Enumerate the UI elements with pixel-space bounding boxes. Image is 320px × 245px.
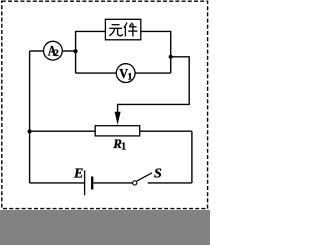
wire element box to right corner down bbox=[141, 31, 171, 73]
ammeter A2 bbox=[44, 41, 63, 60]
battery E short plate bbox=[91, 177, 93, 190]
wire node A up branch to element box bbox=[76, 31, 106, 73]
wire ammeter left lead bbox=[30, 50, 44, 52]
hanzi 元 bbox=[109, 25, 122, 36]
wire rheostat left lead bbox=[30, 130, 96, 132]
wire switch to right corner bbox=[148, 182, 192, 184]
svg-text:S: S bbox=[154, 166, 162, 181]
rheostat R1 body bbox=[95, 126, 140, 136]
node B junction dot bbox=[169, 55, 173, 59]
svg-text:E: E bbox=[73, 166, 83, 181]
hanzi 件 bbox=[124, 22, 138, 36]
svg-text:2: 2 bbox=[54, 49, 59, 59]
switch S lever bbox=[137, 173, 152, 181]
node C junction dot (rheostat left lead) bbox=[28, 129, 32, 133]
wire bottom left to battery bbox=[30, 182, 85, 184]
battery E long plate bbox=[84, 170, 86, 195]
wire left vertical bbox=[29, 51, 31, 183]
wire right vertical lower bbox=[191, 131, 193, 183]
dashed frame border bbox=[2, 1, 208, 208]
svg-text:1: 1 bbox=[121, 142, 126, 153]
voltmeter V1 bbox=[116, 64, 135, 83]
element box 元件 bbox=[105, 19, 140, 40]
wire node B to rheostat wiper bbox=[118, 57, 190, 116]
svg-text:1: 1 bbox=[128, 73, 133, 83]
switch S pivot circle bbox=[133, 181, 137, 185]
wire battery to switch bbox=[93, 182, 132, 184]
gray footer bar bbox=[0, 210, 210, 245]
wire voltmeter right to node B bbox=[136, 72, 171, 74]
node A junction dot bbox=[74, 49, 78, 53]
wire ammeter right to node A bbox=[62, 50, 75, 52]
wire node A down branch to voltmeter bbox=[76, 72, 116, 74]
wire rheostat right lead bbox=[140, 130, 192, 132]
rheostat wiper arrow head bbox=[115, 112, 121, 125]
